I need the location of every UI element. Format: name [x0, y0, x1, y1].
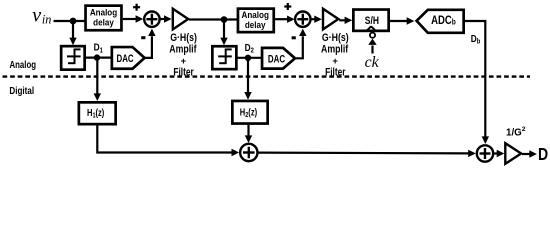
wire: amp A2 to S/H: [339, 17, 352, 24]
wire: H2 down to summer S3: [245, 125, 252, 143]
svg-text:G·H(s): G·H(s): [322, 32, 349, 44]
label: Digital region: [9, 85, 34, 96]
wire: summer S1 to amp A1: [160, 15, 172, 22]
svg-text:1/G: 1/G: [506, 128, 522, 139]
minus sign label at summer S2: [292, 36, 296, 39]
wire: summer S4 to amp A3: [494, 150, 505, 157]
wire: ADC out, corner down to summer S4: [464, 21, 489, 144]
node v_in input label: [32, 5, 51, 27]
clock bubble: [370, 33, 375, 38]
label: Analog region: [10, 59, 37, 70]
wire: summer S2 to amp A2: [311, 16, 322, 23]
label 1/G^2 gain value: [506, 126, 526, 139]
wire: DAC2 up to summer S2 minus input: [295, 29, 306, 59]
svg-text:Amplif: Amplif: [321, 43, 349, 55]
svg-text:H2(z): H2(z): [240, 106, 257, 119]
minus sign label at summer S1: [141, 36, 145, 39]
svg-text:Filter: Filter: [173, 67, 194, 79]
wire: node D2 down to H2: [244, 58, 251, 100]
summer S4 (digital output): [477, 145, 493, 161]
op-amp A2 triangle: [323, 9, 338, 30]
wire: Q1 to DAC1 with node D1: [86, 56, 112, 58]
svg-text:Digital: Digital: [9, 85, 34, 96]
block: S/H sample and hold: [353, 10, 388, 31]
op-amp A3 triangle 1/G^2: [505, 143, 521, 164]
svg-text:delay: delay: [93, 17, 114, 28]
wire: amp A3 to output D: [522, 150, 537, 157]
svg-text:DAC: DAC: [268, 53, 285, 66]
clock edge notch on S/H: [367, 26, 376, 31]
quantizer Q1: [61, 46, 85, 70]
wire: S/H to ADC: [390, 17, 414, 24]
plus sign label at summer S2 input: [284, 3, 291, 10]
wire: v_in to delay1: [54, 20, 87, 22]
wire: delay2 to summer S2: [275, 16, 295, 23]
label: G·H(s) Amplif + Filter (stage 2): [321, 32, 349, 78]
junction dot node D2: [245, 55, 251, 61]
summer S3 (digital): [240, 144, 257, 161]
op-amp A1 triangle: [173, 9, 188, 30]
svg-text:S/H: S/H: [365, 15, 379, 27]
svg-text:ck: ck: [365, 54, 380, 71]
svg-text:+: +: [181, 56, 187, 67]
wire: branch down to quantizer Q1: [69, 21, 76, 45]
svg-text:D: D: [538, 144, 548, 164]
wire: ck arrow into S/H: [368, 39, 376, 54]
svg-text:delay: delay: [245, 19, 266, 30]
block: Analog delay 1: [86, 6, 122, 31]
block: ADCb converter: [417, 10, 464, 33]
wire: DAC1 up to summer S1 minus input: [145, 29, 156, 58]
wire: H1 down and right to summer S3: [97, 125, 239, 156]
quantizer Q2: [212, 46, 236, 69]
block: digital filter H2(z): [232, 101, 267, 124]
junction dot node D1: [94, 54, 100, 60]
block: digital filter H1(z): [79, 102, 116, 124]
svg-text:ADCb: ADCb: [431, 14, 456, 27]
junction dot at stage2 branch: [221, 16, 228, 23]
node Db label: [471, 33, 481, 45]
svg-text:Filter: Filter: [325, 67, 346, 79]
svg-text:G·H(s): G·H(s): [170, 32, 197, 44]
summer S1: [144, 12, 159, 27]
svg-text:2: 2: [522, 126, 526, 133]
wire: node D1 down to H1: [94, 58, 101, 101]
dashed analog/digital boundary line: [3, 75, 531, 77]
label: G·H(s) Amplif + Filter (stage 1): [169, 32, 197, 78]
svg-text:Amplif: Amplif: [169, 43, 197, 55]
svg-text:H1(z): H1(z): [87, 107, 104, 120]
wire: summer S3 to summer S4: [259, 150, 476, 157]
node D output label: [538, 144, 548, 164]
svg-text:+: +: [332, 56, 338, 67]
node D1 label: [94, 42, 104, 55]
wire: branch down to quantizer Q2: [220, 20, 227, 46]
node D2 label: [245, 42, 255, 55]
svg-text:v: v: [32, 5, 41, 27]
DAC D2 block: [262, 48, 295, 69]
wire: amp A1 to delay2: [189, 18, 238, 20]
plus sign label at summer S1 input: [133, 4, 140, 11]
svg-text:DAC: DAC: [117, 53, 134, 66]
block: Analog delay 2: [238, 9, 274, 33]
summer S2: [295, 12, 310, 27]
wire: Q2 to DAC2 with node D2: [237, 57, 262, 59]
junction dot at v_in branch: [70, 18, 77, 25]
svg-text:Analog: Analog: [10, 59, 37, 70]
wire: delay1 to summer S1: [123, 15, 143, 22]
DAC D1 block: [112, 47, 145, 69]
svg-text:in: in: [42, 12, 52, 26]
